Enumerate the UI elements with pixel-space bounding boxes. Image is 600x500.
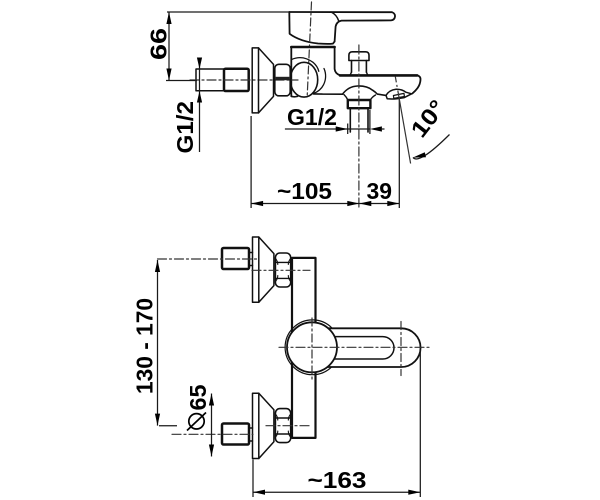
shower diverter dome xyxy=(343,86,387,95)
top pipe neck xyxy=(249,253,253,266)
dim 66 arrows xyxy=(166,12,171,81)
10deg angle arc xyxy=(413,135,450,159)
svg-text:G1/2: G1/2 xyxy=(172,101,198,154)
bottom escutcheon cone xyxy=(259,393,274,458)
dim ~163 extension lines xyxy=(253,350,420,498)
lever inner edge xyxy=(330,337,394,359)
supply pipe (side) xyxy=(196,69,249,91)
dim ~163 line xyxy=(253,491,420,493)
dim 130-170 bottom extension xyxy=(159,425,177,427)
dim G1/2 bottom extension lines xyxy=(348,110,370,134)
diverter / shower axis centerline xyxy=(358,45,360,208)
svg-text:10°: 10° xyxy=(405,95,450,143)
label diameter symbol xyxy=(187,413,206,431)
handle mount ring behind knob xyxy=(285,320,340,375)
body bulge arc xyxy=(292,58,319,72)
lever (front, stadium shape) xyxy=(324,328,421,367)
handle knob (front) xyxy=(287,322,337,372)
bottom escutcheon flange xyxy=(253,393,259,458)
10deg slant axis line xyxy=(395,77,397,90)
dim ~163 arrows xyxy=(253,490,420,495)
handle pivot axis centerline xyxy=(307,2,311,96)
bottom pipe centerline xyxy=(172,433,253,435)
aerator outlet xyxy=(386,89,412,99)
bottom supply pipe (front) xyxy=(222,424,249,445)
spout top surface xyxy=(340,74,417,77)
svg-text:G1/2: G1/2 xyxy=(287,104,337,130)
dim ~105/39 extension lines xyxy=(251,97,399,208)
svg-text:66: 66 xyxy=(146,28,172,60)
svg-text:~105: ~105 xyxy=(277,178,332,204)
dim G1/2 bottom leader xyxy=(285,128,385,130)
svg-text:65: 65 xyxy=(185,384,211,410)
diverter knob xyxy=(349,52,369,76)
top escutcheon flange xyxy=(253,237,259,302)
wall escutcheon (side) xyxy=(252,48,273,113)
dim dia65 line xyxy=(211,394,213,457)
knob vertical centerline xyxy=(311,318,313,381)
bottom pipe neck xyxy=(249,428,253,441)
dim dia65 arrows xyxy=(209,394,214,457)
dim G1/2 left arrows xyxy=(197,58,202,103)
dim 130-170 line xyxy=(157,260,159,426)
supply pipe centerline xyxy=(190,79,298,81)
svg-text:39: 39 xyxy=(367,178,393,204)
dim 66 extension lines xyxy=(166,12,289,81)
dome base flares xyxy=(344,95,348,100)
horizontal centerline (front) xyxy=(279,346,429,348)
faucet body (front) xyxy=(292,258,316,438)
top mounting nut (front) xyxy=(275,253,290,287)
bottom mounting nut (front) xyxy=(275,409,290,443)
cartridge ellipse (side) xyxy=(290,62,317,97)
svg-text:130 - 170: 130 - 170 xyxy=(132,298,158,394)
top supply pipe (front) xyxy=(222,248,249,269)
mounting hex nut (side) xyxy=(275,64,290,96)
dim ~105/39 arrows xyxy=(251,201,399,206)
dim 130-170 arrows xyxy=(155,260,160,426)
spout tip right edge xyxy=(412,75,420,93)
shower outlet nut xyxy=(348,100,371,108)
dim G1/2 bottom arrows xyxy=(336,126,382,131)
shower outlet pipe xyxy=(350,109,368,133)
top escutcheon cone xyxy=(259,237,274,302)
top inlet centerline xyxy=(252,269,310,271)
spout neck curve xyxy=(313,69,325,94)
top pipe centerline xyxy=(158,258,259,260)
svg-text:~163: ~163 xyxy=(308,467,367,493)
faucet body (side) xyxy=(291,47,340,96)
lever handle (side) xyxy=(289,12,395,44)
lever cap vertical centerline xyxy=(400,322,402,376)
10deg arc arrow xyxy=(413,152,426,157)
dim ~105/39 line xyxy=(251,203,399,205)
bottom inlet centerline xyxy=(266,425,310,427)
dim G1/2 left line xyxy=(199,59,201,152)
spout underside xyxy=(291,94,342,97)
dim 66 line xyxy=(168,12,170,81)
